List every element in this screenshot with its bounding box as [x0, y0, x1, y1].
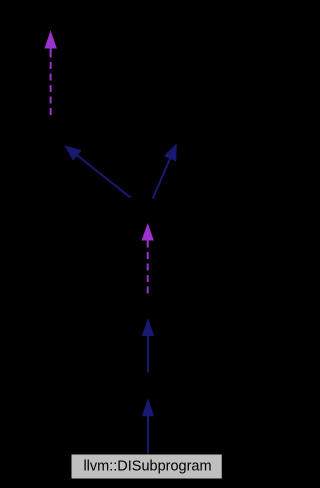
- node D: llvm::DISubprogram box: [72, 455, 222, 479]
- arrowhead E6: [143, 400, 154, 416]
- wire E3 stem: [153, 158, 171, 198]
- wire E1 stem: [50, 51, 52, 116]
- arrowhead E3: [165, 145, 177, 161]
- wire E5 stem: [147, 334, 149, 373]
- arrowhead E4: [142, 225, 153, 241]
- wire E2 stem: [77, 155, 131, 198]
- edge E5: solid blue arrow (node C to node B): [143, 320, 154, 373]
- arrowhead E1: [45, 32, 56, 48]
- arrowhead E2: [65, 146, 81, 160]
- edge E6: solid blue arrow (node D to node C): [143, 400, 154, 454]
- arrowhead E5: [143, 320, 154, 336]
- wire E4 stem: [147, 243, 149, 294]
- wire E6 stem: [147, 415, 149, 454]
- edge E4: dashed purple arrow (node B to node M): [142, 225, 153, 294]
- edge E2: solid blue arrow (node M to node L): [65, 146, 130, 198]
- edge E3: solid blue arrow (node M to node R): [153, 145, 177, 199]
- svg-text:llvm::DISubprogram: llvm::DISubprogram: [83, 459, 211, 475]
- edge E1: dashed purple arrow (node L to node T): [45, 32, 56, 115]
